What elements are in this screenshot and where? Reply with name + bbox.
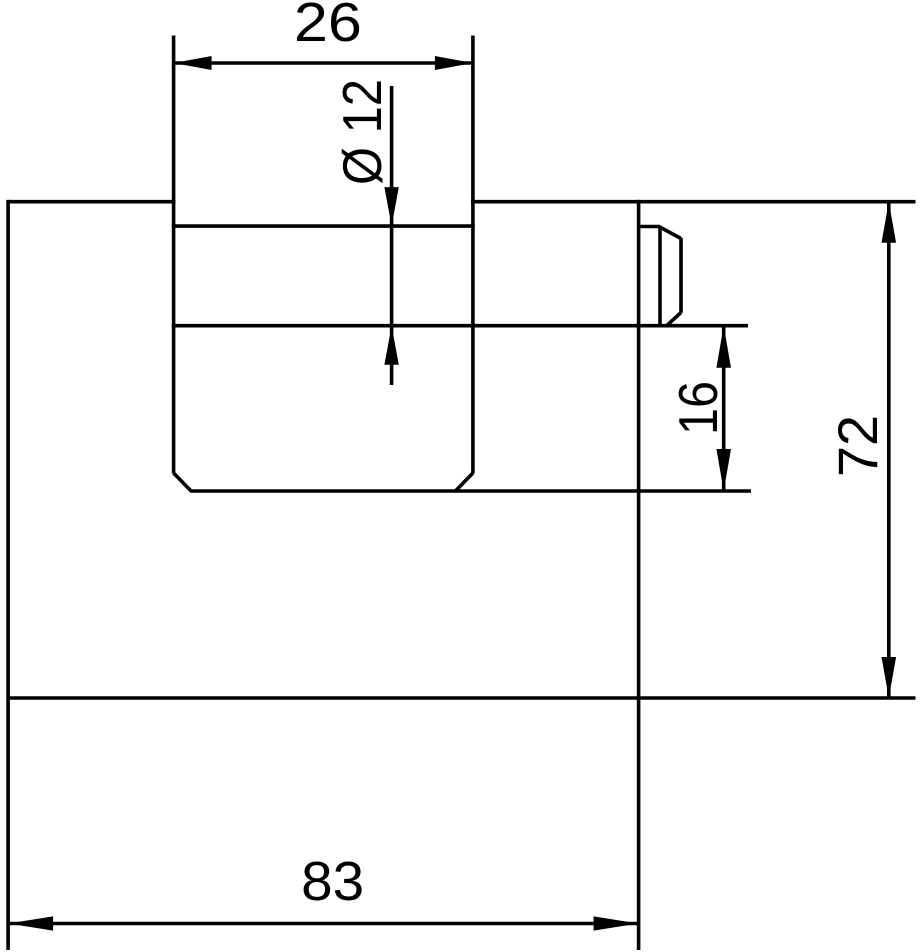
arrow 16 down — [716, 449, 731, 491]
body bottom edge (extended right as 72 extension line) — [8, 696, 915, 700]
arrow 26 left — [174, 56, 212, 70]
shackle right leg (also 26 extension line) — [471, 36, 475, 474]
16 dimension line — [722, 326, 726, 491]
svg-text:83: 83 — [301, 850, 364, 912]
svg-text:26: 26 — [294, 0, 362, 53]
shackle left leg (also 26 extension line) — [172, 36, 176, 474]
72 dimension line — [887, 202, 891, 698]
pin inner vertical — [658, 227, 662, 326]
svg-text:Ø 12: Ø 12 — [331, 79, 393, 185]
arrow dia12 up (tip on hole bottom line) — [384, 326, 398, 365]
body top edge left segment — [8, 200, 175, 204]
26 dimension line — [174, 61, 473, 65]
shackle chamfer right — [456, 473, 473, 491]
arrow 72 down — [882, 657, 897, 698]
83 dimension line — [8, 922, 639, 926]
dia 12 leader line — [390, 86, 394, 385]
pin top line — [639, 225, 659, 229]
pin chamfer top — [658, 226, 681, 238]
arrow 83 right — [594, 916, 639, 930]
body left edge (extended down as 83 extension line) — [6, 200, 10, 950]
shackle hole bottom line (extended right as 16 extension line) — [172, 324, 748, 328]
shackle bottom edge (extended right as 16 extension line) — [190, 489, 751, 493]
arrow 72 up — [882, 202, 897, 243]
svg-text:16: 16 — [667, 381, 729, 435]
shackle hole top line — [172, 224, 475, 228]
svg-text:72: 72 — [826, 415, 889, 477]
arrow 16 up — [716, 326, 731, 368]
shackle chamfer left — [174, 473, 191, 491]
arrow 83 left — [8, 916, 53, 930]
arrow dia12 down (tip on hole top line) — [384, 187, 398, 226]
pin chamfer bottom — [667, 313, 681, 326]
body top edge right segment (extended right as 72 extension line) — [471, 200, 916, 204]
pin right edge — [679, 238, 683, 313]
arrow 26 right — [435, 56, 473, 70]
body right edge (extended down as 83 extension line) — [637, 200, 641, 950]
